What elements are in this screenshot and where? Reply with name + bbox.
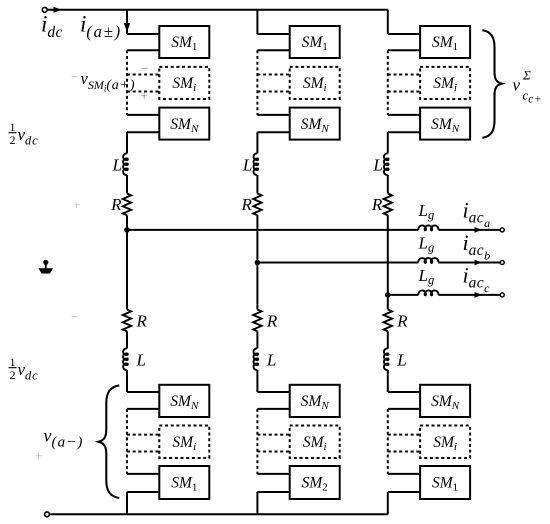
svg-text:+: + bbox=[35, 448, 42, 463]
svg-text:L: L bbox=[112, 156, 122, 175]
svg-text:SMi: SMi bbox=[433, 434, 457, 453]
svg-text:SMi: SMi bbox=[303, 434, 327, 453]
svg-text:R: R bbox=[110, 195, 122, 214]
svg-text:−: − bbox=[142, 61, 149, 76]
svg-text:R: R bbox=[371, 195, 383, 214]
svg-text:1: 1 bbox=[10, 120, 16, 134]
svg-text:L: L bbox=[242, 156, 252, 175]
svg-text:−: − bbox=[71, 69, 78, 84]
svg-text:Σ: Σ bbox=[522, 68, 531, 83]
svg-text:SMi: SMi bbox=[433, 75, 457, 94]
svg-text:v: v bbox=[513, 76, 521, 95]
svg-text:R: R bbox=[266, 312, 278, 331]
svg-text:2: 2 bbox=[10, 133, 16, 147]
svg-text:R: R bbox=[241, 195, 253, 214]
svg-text:R: R bbox=[136, 312, 148, 331]
svg-text:+: + bbox=[141, 88, 148, 103]
svg-text:R: R bbox=[396, 312, 408, 331]
svg-text:L: L bbox=[266, 351, 276, 370]
svg-text:1: 1 bbox=[10, 355, 16, 369]
svg-text:SMi: SMi bbox=[172, 434, 196, 453]
svg-text:SMi: SMi bbox=[303, 75, 327, 94]
svg-text:SMi: SMi bbox=[172, 75, 196, 94]
svg-text:L: L bbox=[396, 351, 406, 370]
svg-text:+: + bbox=[73, 197, 80, 212]
svg-text:L: L bbox=[136, 351, 146, 370]
svg-text:2: 2 bbox=[10, 368, 16, 382]
svg-text:L: L bbox=[372, 156, 382, 175]
svg-text:−: − bbox=[71, 309, 78, 324]
